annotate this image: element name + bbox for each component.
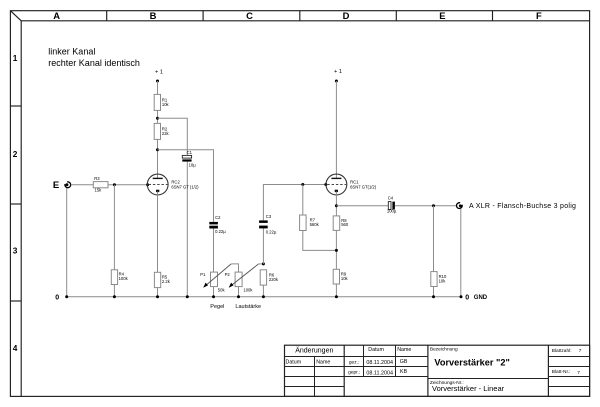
svg-text:10k: 10k — [341, 276, 349, 281]
svg-text:15k: 15k — [95, 188, 103, 193]
wire +1 to tube 2 anode — [335, 81, 337, 179]
svg-text:0.22µ: 0.22µ — [266, 230, 277, 235]
node +1 (right supply) — [334, 69, 342, 82]
note: channel annotation — [48, 46, 140, 68]
wire R10 to rail — [433, 287, 435, 297]
wire junction to R7 — [302, 185, 304, 216]
svg-text:E: E — [439, 10, 445, 21]
node grid entry — [146, 183, 149, 186]
wire C2 to P1 — [213, 229, 215, 273]
svg-text:+ 1: + 1 — [155, 69, 163, 75]
wire R4 to rail — [113, 285, 115, 297]
svg-text:Vorverstärker "2": Vorverstärker "2" — [434, 357, 509, 367]
wire XLR ground drop — [460, 209, 462, 297]
wire E ground drop — [66, 188, 68, 297]
svg-text:Bezeichnung: Bezeichnung — [430, 346, 458, 352]
wire R7 to cathode chain — [303, 231, 337, 251]
node rail right end / GND — [460, 294, 488, 301]
wire cathode 1 down — [157, 192, 159, 273]
svg-text:R3: R3 — [94, 176, 100, 181]
svg-text:gez.:: gez.: — [349, 360, 359, 365]
svg-text:GB: GB — [400, 359, 408, 365]
svg-text:1: 1 — [13, 53, 18, 63]
capacitor C4 — [387, 195, 397, 213]
node C1 bottom — [186, 295, 189, 298]
node R7 top junction — [301, 183, 304, 186]
wire R8 to R9 — [335, 230, 337, 269]
svg-text:560k: 560k — [310, 222, 320, 227]
resistor R1 — [154, 94, 169, 110]
node +1 (left supply) — [155, 69, 163, 82]
resistor R2 — [154, 123, 169, 139]
node R6/C3 junction — [262, 262, 265, 265]
connector E (input) — [53, 180, 71, 191]
svg-text:08.11.2004: 08.11.2004 — [366, 371, 393, 377]
svg-text:100k: 100k — [243, 288, 253, 293]
wire junction to C1 — [158, 118, 188, 155]
node R9 bottom — [335, 295, 338, 298]
wire C1 to ground rail — [186, 162, 188, 297]
wire P2 wiper to R6 junction — [259, 263, 264, 265]
svg-text:C3: C3 — [266, 214, 272, 219]
svg-text:Pegel: Pegel — [210, 304, 224, 310]
svg-text:Name: Name — [316, 359, 330, 365]
wire +1 to R1 — [157, 81, 159, 94]
potentiometer P2 — [225, 264, 259, 293]
svg-text:08.11.2004: 08.11.2004 — [366, 360, 393, 366]
wire P1 wiper to P2 top — [231, 264, 238, 272]
svg-text:3: 3 — [13, 246, 18, 256]
node R4 top junction — [113, 183, 116, 186]
wire R5 to rail — [157, 288, 159, 297]
svg-text:7: 7 — [579, 348, 582, 354]
resistor R7 — [300, 215, 320, 231]
op tube RC1 (triode 2) — [326, 174, 377, 195]
potentiometer P1 — [200, 264, 231, 293]
svg-text:0.22µ: 0.22µ — [215, 229, 226, 234]
wire R9 to rail — [335, 284, 337, 297]
node output junction — [335, 204, 338, 207]
svg-text:0: 0 — [55, 294, 59, 301]
resistor R4 — [111, 270, 128, 285]
node R7/R8/R9 junction — [335, 249, 338, 252]
svg-text:22k: 22k — [162, 131, 170, 136]
svg-text:linker Kanal: linker Kanal — [48, 46, 95, 56]
resistor R6 — [260, 270, 279, 285]
svg-text:2.2k: 2.2k — [162, 279, 171, 284]
svg-text:C2: C2 — [215, 215, 221, 220]
svg-text:Datum: Datum — [286, 359, 302, 365]
ground rail 0 — [55, 294, 461, 301]
svg-text:Datum: Datum — [368, 347, 384, 353]
svg-text:+ 1: + 1 — [334, 69, 342, 75]
op tube RC2 (triode 1) — [147, 174, 199, 195]
wire R2 to tube anode — [157, 139, 159, 178]
resistor R8 — [333, 216, 349, 231]
node P2 bottom — [237, 295, 240, 298]
resistor R5 — [154, 272, 170, 287]
wire junction to R10 — [433, 206, 435, 272]
connector A XLR output — [456, 203, 576, 210]
svg-text:Lautstärke: Lautstärke — [235, 304, 261, 310]
svg-text:6SN7 GT (1/2): 6SN7 GT (1/2) — [171, 185, 199, 190]
svg-text:0: 0 — [465, 294, 469, 301]
capacitor C2 — [209, 215, 226, 234]
svg-text:Vorverstärker - Linear: Vorverstärker - Linear — [432, 384, 505, 393]
frame row numbers — [13, 53, 18, 353]
wire junction up to C3 — [262, 228, 264, 264]
svg-text:Name: Name — [397, 347, 411, 353]
resistor R9 — [333, 269, 348, 284]
svg-text:KB: KB — [400, 369, 408, 375]
svg-text:E: E — [53, 180, 59, 191]
wire R1 to R2 — [157, 110, 159, 123]
svg-text:P1: P1 — [200, 272, 206, 277]
node R1/R2 junction — [156, 117, 159, 120]
node R10 top junction — [432, 204, 435, 207]
svg-text:100µ: 100µ — [387, 209, 397, 214]
svg-text:4: 4 — [13, 343, 18, 353]
node rail left end — [65, 295, 68, 298]
node P1 bottom — [212, 295, 215, 298]
svg-text:50k: 50k — [218, 288, 226, 293]
wire junction to R4 — [113, 185, 115, 270]
svg-text:A: A — [53, 10, 60, 21]
wire anode junction to C2 — [158, 150, 214, 222]
capacitor C1 — [182, 150, 196, 168]
wire C4 to XLR — [395, 205, 456, 207]
svg-text:A XLR - Flansch-Buchse 3 poli: A XLR - Flansch-Buchse 3 polig — [469, 203, 576, 210]
node R5 bottom — [156, 295, 159, 298]
wire output to C4 — [336, 205, 388, 207]
svg-text:B: B — [150, 10, 157, 21]
svg-text:10µ: 10µ — [189, 163, 197, 168]
svg-text:gepr.:: gepr.: — [348, 370, 360, 376]
svg-text:Blatt-Nr.:: Blatt-Nr.: — [552, 369, 571, 375]
wire P1 to rail — [213, 287, 215, 297]
wire cathode 2 to R8 — [335, 192, 337, 216]
svg-text:10k: 10k — [439, 278, 447, 283]
capacitor C3 — [259, 214, 277, 235]
wire P2 to rail — [238, 287, 240, 297]
svg-text:Blattzahl:: Blattzahl: — [552, 348, 572, 354]
node R4 bottom — [113, 295, 116, 298]
svg-text:GND: GND — [474, 295, 488, 301]
wire C3 to grid of tube 2 — [263, 185, 325, 221]
svg-text:C4: C4 — [388, 195, 394, 200]
resistor R3 — [93, 176, 108, 192]
node R6 bottom — [262, 295, 265, 298]
frame column letters — [53, 10, 542, 21]
svg-text:2: 2 — [13, 149, 18, 159]
svg-text:C1: C1 — [187, 150, 193, 155]
wire R6 to rail — [262, 285, 264, 297]
svg-text:10k: 10k — [162, 102, 170, 107]
svg-text:D: D — [343, 10, 350, 21]
wire R3 to tube grid — [108, 184, 147, 186]
wire E to R3 — [71, 184, 94, 186]
svg-text:100k: 100k — [119, 276, 129, 281]
svg-text:6SN7 GT(1/2): 6SN7 GT(1/2) — [350, 184, 377, 189]
resistor R10 — [431, 272, 447, 287]
svg-text:560: 560 — [341, 222, 349, 227]
svg-text:220k: 220k — [269, 277, 279, 282]
svg-text:7: 7 — [577, 370, 580, 376]
svg-text:C: C — [246, 10, 253, 21]
svg-text:F: F — [536, 10, 542, 21]
svg-text:P2: P2 — [225, 272, 231, 277]
svg-text:Änderungen: Änderungen — [295, 347, 333, 355]
node anode junction — [156, 148, 159, 151]
node R10 bottom — [432, 295, 435, 298]
node grid entry tube 2 — [324, 183, 327, 186]
svg-text:rechter Kanal identisch: rechter Kanal identisch — [48, 58, 140, 68]
